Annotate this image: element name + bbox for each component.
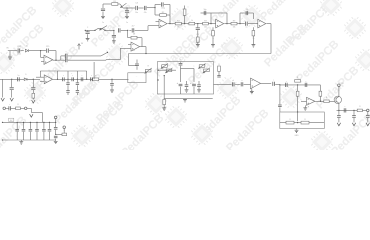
- feedback cap C5: [155, 2, 170, 15]
- capacitor C44: [54, 122, 58, 135]
- box F outline: [280, 112, 325, 129]
- svg-text:C15: C15: [46, 46, 49, 48]
- resistor R5: [189, 22, 195, 25]
- cap hang 2: [76, 79, 79, 95]
- capacitor C31: [241, 82, 243, 86]
- wire to U1A: [147, 26, 149, 31]
- cap C28: [193, 69, 195, 83]
- pot TONE: [94, 26, 107, 31]
- node D: [11, 79, 12, 80]
- svg-text:n: n: [242, 80, 243, 82]
- capacitor C23: [81, 77, 83, 81]
- diag res R14: [145, 68, 152, 73]
- node C: [127, 30, 128, 31]
- feedback cap C9: [240, 11, 254, 24]
- wire: [85, 30, 95, 31]
- svg-text:100p: 100p: [161, 8, 165, 10]
- capacitor C18: [10, 79, 14, 97]
- ground: [162, 108, 166, 110]
- resistor R3: [175, 20, 181, 25]
- switch SW1: [101, 52, 108, 56]
- riser left: [279, 85, 281, 105]
- op-amp U3A: [251, 78, 261, 92]
- node Vref stub / wire: [103, 4, 111, 8]
- capacitor C33: [278, 105, 282, 112]
- capacitor C4: [144, 6, 146, 10]
- wire sw-right: [106, 48, 128, 59]
- wire out U1C: [266, 23, 271, 25]
- wire: [20, 107, 24, 109]
- gnd arrow: [10, 98, 13, 101]
- feedback loop U2C: [40, 71, 57, 79]
- resistor R25: [294, 121, 324, 124]
- capacitor C16: [61, 54, 101, 58]
- ground: [54, 141, 58, 143]
- res extra: [217, 66, 220, 77]
- capacitor C22: [72, 77, 74, 81]
- capacitor C36: [344, 108, 346, 112]
- ground: [295, 129, 300, 138]
- ground: [196, 45, 200, 47]
- svg-text:1u: 1u: [102, 22, 104, 24]
- trimmer TR1: [118, 3, 135, 8]
- gnd arrow: [337, 123, 340, 126]
- inner box: [128, 73, 146, 83]
- wire: [105, 30, 115, 31]
- op-amp U2C: [36, 75, 53, 84]
- terminal 9V: [338, 83, 345, 86]
- svg-text:10n: 10n: [135, 12, 138, 14]
- svg-text:1k: 1k: [191, 20, 193, 22]
- riser: [77, 71, 78, 80]
- cap hang x354: [352, 110, 356, 123]
- capacitor C17: [61, 58, 106, 62]
- bottom rail: [337, 110, 367, 111]
- svg-text:50p: 50p: [204, 9, 207, 11]
- op-amp U3B: [301, 97, 315, 105]
- wire out: [261, 82, 272, 84]
- wire out U1A: [168, 23, 175, 24]
- wire fb: [41, 51, 56, 61]
- wire main85: [279, 84, 320, 85]
- wire: [181, 68, 195, 70]
- capacitor C24: [110, 79, 114, 90]
- ground: [19, 140, 23, 144]
- svg-text:GND: GND: [295, 135, 300, 137]
- capacitor C45: [54, 136, 58, 141]
- svg-text:1u: 1u: [126, 22, 128, 24]
- filter cap C38: [15, 122, 19, 140]
- stub gnd-arrow: [1, 79, 4, 101]
- resistor R24: [280, 121, 294, 124]
- wire sw common: [105, 59, 107, 62]
- node out B1: [53, 60, 61, 61]
- svg-text:1k: 1k: [197, 41, 199, 43]
- ladder bus: [58, 71, 87, 79]
- value labels: [9, 8, 361, 132]
- resistor R19 vertical: [163, 99, 166, 107]
- svg-text:n: n: [233, 80, 234, 82]
- capacitor C12: [118, 28, 127, 32]
- resistor R10 vertical: [252, 27, 255, 44]
- svg-text:D1: D1: [26, 46, 28, 48]
- capacitor C30: [232, 82, 234, 86]
- wire out: [53, 79, 59, 80]
- diag res R15: [161, 64, 168, 69]
- resistor R27: [62, 133, 67, 136]
- capacitor C23b: [86, 77, 92, 81]
- ground: [101, 16, 105, 18]
- ground: [112, 41, 116, 43]
- wire: [138, 7, 143, 9]
- svg-text:1u: 1u: [17, 75, 19, 77]
- pol cap C27: [177, 82, 183, 94]
- svg-text:c: c: [273, 80, 274, 82]
- resistor R20: [295, 80, 301, 83]
- pol cap C29: [190, 82, 196, 94]
- resistor R12 vertical: [32, 93, 35, 99]
- ground: [211, 45, 215, 47]
- input terminal: [7, 48, 11, 57]
- capacitor C20: [31, 79, 35, 93]
- resistor R26: [16, 107, 21, 110]
- op-amp U2B: [41, 55, 53, 64]
- svg-text:1u: 1u: [245, 27, 247, 29]
- cap hang x199: [197, 81, 201, 92]
- resistor R7: [203, 20, 209, 25]
- wire y98: [164, 98, 213, 100]
- capacitor C37: [9, 106, 16, 110]
- diag res R18: [203, 68, 210, 73]
- svg-text:4n7: 4n7: [196, 34, 199, 36]
- node E: [157, 70, 159, 81]
- cap C26: [179, 62, 183, 82]
- diode D2: [24, 78, 27, 81]
- op-amp U1C: [258, 19, 266, 28]
- node H: [55, 134, 62, 135]
- wire main79: [0, 78, 40, 80]
- node F: [297, 84, 298, 85]
- emitter wire: [338, 103, 340, 110]
- resistor R13: [93, 78, 99, 81]
- svg-text:C14: C14: [17, 46, 20, 48]
- terminal OUT: [367, 109, 370, 112]
- svg-text:1k: 1k: [212, 38, 214, 40]
- cap hang x186: [185, 81, 189, 92]
- gnd arrow: [366, 123, 369, 126]
- branch down: [164, 75, 165, 99]
- cap hang x338: [337, 110, 341, 122]
- svg-text:100n: 100n: [17, 54, 21, 56]
- svg-text:10k: 10k: [177, 27, 180, 29]
- riser to rail: [41, 112, 43, 122]
- cap hang 1: [66, 79, 69, 95]
- wire corner: [27, 108, 42, 112]
- V+ rail: [2, 122, 56, 123]
- filter cap C41: [35, 122, 39, 140]
- capacitor C35: [305, 83, 307, 87]
- plus mark: [308, 106, 310, 109]
- label 9V box: [9, 118, 14, 122]
- svg-text:c: c: [33, 84, 34, 86]
- terminal: [24, 107, 27, 110]
- wire: [237, 23, 245, 24]
- ground: [250, 89, 254, 94]
- split riser: [60, 56, 62, 60]
- node A: [126, 7, 127, 8]
- resistor R1: [112, 1, 118, 6]
- svg-text:10k: 10k: [204, 27, 207, 29]
- capacitor C6: [196, 24, 200, 37]
- gnd arrow: [32, 100, 35, 103]
- resistor R23: [357, 109, 362, 112]
- wire: [329, 100, 334, 102]
- wire: [10, 50, 17, 52]
- terminal Vc: [54, 116, 57, 127]
- gnd arrow: [352, 123, 355, 126]
- wire down + long return: [129, 24, 272, 66]
- node B: [154, 7, 155, 8]
- wire: [275, 84, 280, 86]
- capacitor C8: [246, 22, 248, 26]
- resistor R4 vertical: [183, 6, 188, 24]
- collector wire: [338, 86, 340, 96]
- feedback cap C7: [201, 11, 228, 24]
- ladder wire: [58, 78, 93, 80]
- riser: [67, 71, 68, 80]
- svg-text:1k: 1k: [253, 38, 255, 40]
- feedback cap C15: [41, 46, 56, 53]
- ground: [8, 57, 12, 59]
- vref arrow: [30, 114, 33, 117]
- power flag: [78, 43, 84, 50]
- terminal DC: [3, 107, 9, 110]
- capacitor C14: [17, 46, 20, 53]
- cap hang x367: [366, 112, 370, 123]
- svg-text:47n: 47n: [144, 12, 147, 14]
- svg-text:c: c: [286, 81, 287, 83]
- wire inner: [158, 69, 176, 71]
- capacitor C13: [129, 28, 148, 32]
- feedback R11: [128, 30, 142, 46]
- capacitor C25: [129, 60, 139, 70]
- capacitor C11: [112, 30, 116, 40]
- capacitor C3: [135, 3, 138, 11]
- diag res R17: [199, 64, 206, 69]
- ground: [86, 39, 90, 41]
- wire: [147, 7, 155, 9]
- ground: [183, 99, 187, 102]
- wire: [29, 50, 41, 51]
- diode D1: [25, 49, 28, 52]
- ground: [110, 90, 114, 92]
- ground: [303, 105, 307, 110]
- ground: [252, 45, 256, 47]
- wire: [244, 83, 251, 85]
- capacitor C2: [125, 8, 129, 16]
- svg-text:50p: 50p: [245, 9, 248, 11]
- op-amp U1B: [208, 19, 223, 28]
- wire: [99, 78, 129, 80]
- filter cap C40: [29, 122, 33, 140]
- wire: [28, 79, 34, 80]
- capacitor C21: [63, 73, 73, 81]
- resistor R8 vertical: [212, 27, 215, 44]
- ground: [125, 16, 129, 18]
- wire bus84: [214, 83, 232, 85]
- filter cap C42: [42, 122, 46, 140]
- filter cap C39: [22, 122, 26, 140]
- op-amp U1A: [148, 19, 167, 28]
- wire: [21, 50, 24, 52]
- svg-text:10k: 10k: [233, 27, 236, 29]
- resistor R21 vertical: [296, 85, 299, 112]
- wire out U1B: [224, 23, 231, 25]
- resistor R9: [231, 20, 237, 25]
- wire out: [315, 101, 324, 102]
- resistor R6 vertical: [196, 37, 199, 44]
- label vref: [132, 50, 135, 52]
- capacitor C19: [18, 77, 20, 81]
- filter cap C43: [48, 122, 52, 140]
- riser sw: [93, 62, 95, 79]
- capacitor C10: [86, 30, 90, 38]
- feedback res R2: [155, 8, 170, 24]
- transistor Q1: [334, 96, 341, 103]
- wire: [248, 23, 258, 25]
- watermark: [0, 0, 370, 162]
- fb riser: [319, 85, 322, 101]
- resistor R22: [324, 100, 329, 103]
- big box: [157, 62, 213, 94]
- wire out U2A: [140, 47, 147, 55]
- diag res R16: [166, 68, 173, 73]
- capacitor C32: [273, 82, 275, 86]
- capacitor C1: [101, 9, 105, 16]
- capacitor C34: [286, 83, 288, 87]
- wire: [235, 83, 241, 85]
- op-amp U2A: [128, 42, 140, 51]
- wire: [195, 23, 203, 24]
- GND rail: [2, 139, 56, 140]
- node G: [297, 111, 298, 123]
- terminal Vb: [63, 126, 66, 133]
- svg-text:4n7: 4n7: [132, 25, 135, 27]
- wire: [181, 23, 189, 24]
- svg-text:1n: 1n: [118, 25, 120, 27]
